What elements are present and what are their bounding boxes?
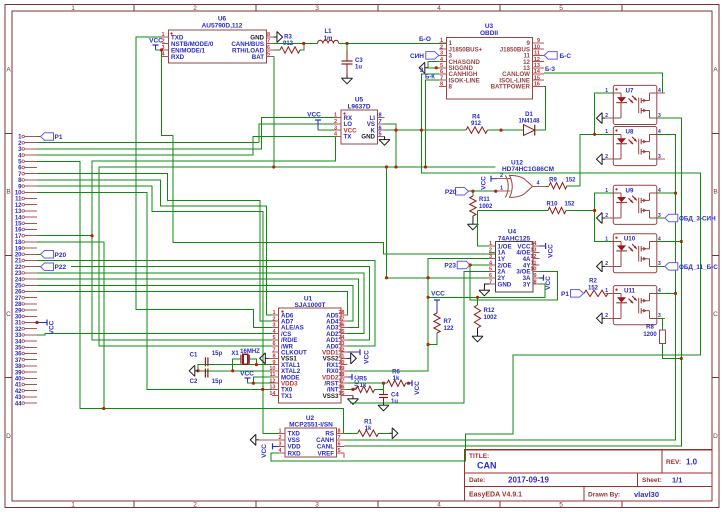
IC U1 SJA1000T: [269, 296, 347, 403]
svg-text:D: D: [713, 433, 718, 440]
svg-text:U5: U5: [355, 97, 364, 104]
svg-text:12: 12: [15, 203, 22, 209]
svg-text:VCC: VCC: [431, 291, 445, 298]
wire CANLOW to U7 pin4 label B-Z: [544, 67, 662, 93]
svg-text:122: 122: [444, 326, 455, 332]
ground at U8 pin2: [602, 158, 605, 160]
svg-text:U10: U10: [624, 236, 636, 243]
svg-text:VCC: VCC: [307, 112, 321, 119]
wire conn pin3 to U5 RX: [37, 118, 335, 149]
svg-text:44: 44: [15, 401, 22, 407]
wire U6 TXD staircase to ALE/AS: [136, 37, 279, 327]
VCC symbol at U1 VDD1: [348, 349, 371, 364]
svg-text:38: 38: [15, 364, 22, 370]
svg-text:2: 2: [440, 44, 443, 50]
svg-text:Б-К: Б-К: [425, 75, 435, 81]
svg-text:19: 19: [15, 246, 22, 252]
wire EN-net jog: [162, 50, 174, 136]
svg-text:1: 1: [500, 186, 503, 192]
ground at U2 VSS: [259, 439, 278, 441]
svg-text:2: 2: [605, 313, 608, 319]
svg-text:14: 14: [534, 69, 541, 75]
ground below C4: [383, 402, 385, 405]
svg-text:42: 42: [15, 389, 22, 395]
wire conn pin4 to U5 TX: [37, 136, 335, 155]
svg-text:40: 40: [15, 377, 22, 383]
junction dot P23: [469, 263, 472, 266]
wire U7 pin1 to U8 pin1: [595, 93, 614, 134]
junction dot U10 pin4 on CANL riser: [680, 240, 683, 243]
svg-text:RXD: RXD: [288, 450, 302, 457]
net flag P22 at conn pin22: [37, 263, 66, 271]
svg-text:7: 7: [440, 75, 443, 81]
ground at U3 SIGGND: [425, 67, 428, 69]
svg-text:L1: L1: [324, 29, 332, 35]
svg-text:8: 8: [533, 279, 536, 285]
wire pin17 net riser x92 and feed line: [92, 136, 335, 339]
svg-text:13: 13: [269, 385, 275, 391]
junction dot 3Y net: [427, 296, 430, 299]
svg-text:R9: R9: [549, 178, 557, 184]
svg-text:25: 25: [15, 284, 22, 290]
svg-text:P20: P20: [55, 252, 67, 259]
resistor R11 1002: [470, 191, 493, 221]
svg-text:C1: C1: [190, 353, 198, 359]
wire 2A feed from bottom rail: [350, 271, 489, 402]
ground right of R1: [389, 432, 392, 434]
svg-text:8: 8: [267, 32, 270, 38]
svg-text:16: 16: [534, 82, 540, 88]
svg-text:24: 24: [338, 335, 345, 341]
svg-text:35: 35: [15, 346, 22, 352]
ground at U1 VSS1: [265, 357, 268, 359]
wire conn pin24 arc to AD3: [37, 279, 359, 327]
svg-text:3Y: 3Y: [523, 281, 531, 288]
svg-text:VCC: VCC: [240, 371, 254, 378]
junction dot U6 EN: [160, 48, 163, 51]
svg-text:1m: 1m: [324, 36, 333, 42]
junction dot pin17 at x92: [90, 234, 93, 237]
svg-text:1k: 1k: [360, 383, 367, 389]
wire XTAL1 row: [198, 364, 272, 366]
svg-text:VCC: VCC: [261, 444, 268, 458]
junction dot C3 node: [345, 42, 348, 45]
svg-text:31: 31: [15, 321, 22, 327]
junction dot R6 right VCC: [407, 382, 410, 385]
svg-text:8: 8: [449, 84, 453, 91]
svg-text:2: 2: [500, 173, 503, 179]
resistor R10 152: [478, 202, 595, 214]
svg-text:21: 21: [15, 259, 22, 265]
svg-text:43: 43: [15, 395, 22, 401]
wire U5 K to R4: [385, 129, 467, 131]
svg-text:1.0: 1.0: [686, 458, 698, 467]
svg-text:22: 22: [15, 265, 22, 271]
hook at U2 VREF: [343, 453, 345, 458]
VCC at U4 pin14: [539, 243, 554, 258]
junction dot XOR pin1 net: [494, 190, 497, 193]
svg-text:10: 10: [534, 44, 540, 50]
svg-text:R7: R7: [444, 319, 452, 325]
svg-text:1k: 1k: [365, 426, 372, 432]
svg-text:2: 2: [489, 248, 492, 254]
wire conn pin26 arc to AD5: [37, 292, 348, 316]
svg-text:J1850BUS+: J1850BUS+: [449, 46, 483, 53]
resistor R9 152: [546, 134, 595, 189]
wire U6 BAT down to y167: [273, 57, 275, 168]
svg-text:C3: C3: [355, 58, 363, 64]
svg-text:912: 912: [471, 121, 482, 127]
svg-text:R2: R2: [589, 279, 597, 285]
junction dot pin18 at bottom rail: [102, 407, 105, 410]
wire conn pin5 down x80 to bottom rail: [37, 161, 344, 433]
svg-text:6: 6: [267, 45, 270, 51]
svg-text:TX1: TX1: [281, 393, 293, 400]
svg-text:1: 1: [489, 241, 492, 247]
optocoupler U8: [605, 127, 665, 166]
junction dot C1/C2 ground node: [196, 369, 199, 372]
svg-text:vlavl30: vlavl30: [634, 490, 659, 499]
svg-text:1: 1: [440, 38, 443, 44]
wire U5 VS down to rail: [385, 124, 397, 167]
svg-text:R6: R6: [392, 370, 400, 376]
svg-text:2: 2: [605, 213, 608, 219]
svg-text:R10: R10: [546, 202, 558, 208]
ground at U9 pin2: [602, 217, 605, 219]
svg-text:152: 152: [565, 202, 576, 208]
wire RX0 net to U4 1Y/2Y: [348, 259, 496, 371]
svg-text:33: 33: [15, 333, 22, 339]
wire EN-net to U4 1A: [173, 136, 495, 254]
svg-text:Б-С: Б-С: [560, 53, 572, 60]
svg-text:EasyEDA V4.9.1: EasyEDA V4.9.1: [469, 492, 522, 499]
svg-text:15: 15: [534, 75, 540, 81]
svg-text:P1: P1: [55, 134, 63, 141]
svg-text:18: 18: [338, 372, 344, 378]
wire conn pin23 arc to AD2: [37, 273, 364, 334]
svg-text:U7: U7: [626, 87, 634, 94]
svg-text:R1: R1: [364, 420, 372, 426]
wire 2Y line: [387, 277, 496, 279]
svg-text:1u: 1u: [355, 65, 362, 71]
svg-text:26: 26: [15, 290, 22, 296]
net flag OBD_11_B-C at U10 pin3: [657, 263, 718, 271]
svg-text:24: 24: [15, 277, 22, 283]
svg-text:R5: R5: [359, 377, 367, 383]
svg-text:9: 9: [272, 360, 275, 366]
svg-text:5: 5: [559, 502, 563, 509]
junction dot R5/R6: [382, 382, 385, 385]
svg-text:BAT: BAT: [252, 54, 264, 61]
svg-text:VCC: VCC: [414, 381, 421, 395]
inductor L1 1m: [318, 29, 339, 44]
wire CANH vertical right x675.5: [344, 134, 675, 440]
svg-text:16: 16: [15, 228, 22, 234]
svg-text:1: 1: [71, 5, 75, 12]
junction dot crystal right on XTAL1: [255, 363, 258, 366]
svg-text:L9637D: L9637D: [347, 104, 370, 111]
svg-text:U3: U3: [485, 23, 494, 30]
net flag P1 at conn pin1: [37, 133, 63, 141]
svg-text:VCC: VCC: [364, 350, 371, 364]
svg-text:7: 7: [267, 39, 270, 45]
svg-text:R12: R12: [484, 308, 496, 314]
optocoupler U7: [605, 85, 665, 124]
junction dot R8 on CANL riser: [680, 357, 683, 360]
svg-text:ОБД_11_Б-С: ОБД_11_Б-С: [679, 264, 718, 271]
VCC symbol at U1 VDD2: [348, 374, 362, 389]
optocoupler U11: [605, 286, 665, 325]
svg-text:9: 9: [533, 273, 536, 279]
svg-text:CAN: CAN: [477, 461, 497, 471]
svg-text:28: 28: [338, 310, 344, 316]
svg-text:RXD: RXD: [171, 54, 185, 61]
capacitor C3 1u: [342, 44, 364, 76]
svg-text:4: 4: [437, 502, 441, 509]
svg-text:6: 6: [378, 125, 381, 131]
svg-text:1/1: 1/1: [672, 476, 682, 485]
svg-text:2: 2: [278, 435, 281, 441]
svg-text:37: 37: [15, 358, 22, 364]
svg-text:U6: U6: [218, 16, 227, 23]
junction dot ISOK on y167 net: [424, 165, 427, 168]
svg-text:8: 8: [272, 354, 275, 360]
ground at U1 VSS3: [348, 395, 354, 397]
junction dot /INT R5: [351, 388, 354, 391]
junction dot R7 bottom: [427, 343, 430, 346]
wire 3Y to R12: [428, 284, 545, 297]
wire long net y167 (BAT rail) to /WR: [99, 167, 496, 346]
resistor R5 1k: [348, 377, 384, 393]
wire XTAL2 row: [198, 370, 272, 372]
capacitor C2 15p: [190, 369, 223, 386]
svg-text:VCC: VCC: [481, 176, 488, 190]
svg-text:3: 3: [658, 154, 661, 160]
svg-text:Date:: Date:: [469, 477, 485, 484]
svg-text:VCC: VCC: [548, 244, 555, 258]
svg-text:10: 10: [530, 267, 536, 273]
wire conn pin10 to TX0: [37, 192, 272, 389]
wire conn pin25 arc to AD4: [37, 285, 353, 321]
svg-text:VSS3: VSS3: [323, 393, 339, 400]
svg-text:4: 4: [658, 88, 661, 94]
svg-text:MCP2551-I/SN: MCP2551-I/SN: [289, 422, 333, 429]
svg-text:1N4148: 1N4148: [518, 119, 540, 125]
svg-text:6: 6: [272, 341, 275, 347]
svg-text:Б-З: Б-З: [545, 67, 555, 73]
junction dot x386.5 tee on y167: [385, 165, 388, 168]
ground at U11 pin2: [602, 317, 605, 319]
svg-text:34: 34: [15, 339, 22, 345]
svg-text:A: A: [713, 67, 718, 74]
VCC at U2 VDD: [261, 443, 278, 457]
wire conn pin2b riser to U5 LO: [259, 124, 335, 143]
wire conn pin21 arc to AD0: [37, 261, 375, 347]
wire P23 to 3/OE: [470, 265, 557, 300]
ground at U6 GND pin8: [274, 36, 277, 38]
wire conn pin18 to RS net: [37, 242, 104, 409]
svg-text:Sheet:: Sheet:: [642, 477, 662, 484]
svg-text:TX: TX: [344, 134, 353, 141]
svg-text:11: 11: [534, 51, 540, 57]
svg-text:32: 32: [15, 327, 22, 333]
resistor R12 1002: [474, 297, 497, 333]
svg-text:1: 1: [334, 113, 337, 119]
junction dot 2Y at x386.5: [385, 276, 388, 279]
svg-text:39: 39: [15, 370, 22, 376]
svg-text:C: C: [713, 311, 718, 318]
svg-text:B: B: [6, 189, 10, 196]
svg-text:8: 8: [337, 429, 340, 435]
svg-text:U11: U11: [624, 288, 636, 295]
svg-text:GND: GND: [361, 134, 375, 141]
svg-text:23: 23: [15, 271, 22, 277]
junction dot MODE/VDD3: [252, 382, 255, 385]
resistor R2 152: [584, 279, 613, 297]
ground below R11: [472, 221, 474, 224]
svg-text:1200: 1200: [643, 332, 657, 338]
svg-text:AU5790D,112: AU5790D,112: [202, 23, 243, 30]
svg-text:B: B: [713, 189, 717, 196]
svg-text:20: 20: [338, 360, 344, 366]
svg-text:3: 3: [440, 51, 443, 57]
svg-text:5: 5: [559, 5, 563, 12]
svg-text:REV:: REV:: [666, 459, 681, 466]
junction dot R12 top: [476, 296, 479, 299]
svg-text:З: З: [420, 68, 424, 74]
svg-text:6: 6: [337, 442, 340, 448]
ground below C3: [346, 75, 348, 78]
IC U2 MCP2551-I/SN: [278, 415, 344, 457]
svg-text:P22: P22: [55, 264, 67, 271]
svg-text:26: 26: [338, 323, 344, 329]
svg-text:Б-О: Б-О: [419, 36, 431, 43]
svg-text:2017-09-19: 2017-09-19: [508, 476, 549, 485]
ground at U7 pin2: [602, 117, 605, 119]
net flag P1 at R2: [561, 290, 584, 298]
svg-text:3: 3: [315, 5, 319, 12]
svg-text:8: 8: [378, 113, 381, 119]
svg-text:27: 27: [15, 296, 22, 302]
wire conn pin2 to U5 LO riser: [37, 142, 259, 144]
svg-text:SJA1000T: SJA1000T: [294, 302, 325, 309]
resistor R4 912: [466, 115, 524, 134]
svg-text:3: 3: [315, 502, 319, 509]
wire CANH/BUS: [274, 43, 318, 45]
VCC symbol at U12 pin2: [481, 176, 498, 190]
net flag P20 at conn pin20: [37, 251, 66, 259]
connector P1 44-pin header: [15, 135, 37, 408]
svg-text:17: 17: [15, 234, 22, 240]
svg-text:152: 152: [566, 178, 577, 184]
svg-text:R8: R8: [646, 325, 654, 331]
junction dot crystal left on XTAL2: [231, 369, 234, 372]
svg-text:ISOK-LINE: ISOK-LINE: [449, 77, 480, 84]
svg-text:3: 3: [272, 323, 275, 329]
svg-text:18: 18: [15, 240, 22, 246]
svg-text:VCC: VCC: [545, 276, 552, 290]
resistor R3 912: [274, 35, 304, 54]
svg-text:R4: R4: [472, 115, 480, 121]
svg-text:16: 16: [338, 385, 344, 391]
svg-text:7: 7: [489, 279, 492, 285]
svg-text:6: 6: [489, 273, 492, 279]
junction dot SIGGND: [435, 66, 438, 69]
svg-text:U9: U9: [626, 187, 634, 194]
svg-text:14: 14: [269, 391, 276, 397]
IC U4 74AHC125: [489, 229, 540, 293]
svg-text:4: 4: [437, 5, 441, 12]
wire conn pin9 staircase to U2 TXD: [37, 186, 285, 433]
svg-text:3: 3: [489, 254, 492, 260]
IC U5 L9637D: [334, 97, 385, 144]
svg-text:5: 5: [489, 267, 492, 273]
VCC symbol at U5: [307, 112, 334, 131]
svg-text:74AHC125: 74AHC125: [498, 235, 531, 242]
svg-text:A: A: [6, 67, 11, 74]
svg-text:21: 21: [338, 354, 344, 360]
svg-text:D1: D1: [525, 112, 533, 118]
svg-text:23: 23: [338, 341, 344, 347]
svg-text:5: 5: [440, 63, 443, 69]
junction dot R3: [302, 42, 305, 45]
wire CANL vertical right x681.25: [344, 118, 681, 446]
svg-text:13: 13: [15, 209, 22, 215]
svg-text:GND: GND: [498, 281, 512, 288]
svg-text:OBDII: OBDII: [480, 30, 498, 37]
svg-text:2: 2: [605, 113, 608, 119]
svg-text:7: 7: [378, 119, 381, 125]
net flag P20 at U12 pin1: [445, 187, 497, 195]
svg-text:2: 2: [272, 316, 275, 322]
svg-text:Drawn By:: Drawn By:: [588, 492, 620, 499]
svg-text:15p: 15p: [212, 379, 223, 385]
svg-text:2: 2: [193, 502, 197, 509]
optocoupler U10: [605, 234, 665, 273]
svg-text:U8: U8: [626, 129, 634, 136]
svg-text:D: D: [6, 433, 11, 440]
svg-text:15: 15: [15, 222, 22, 228]
wire L1 to U3 pin1: [339, 43, 447, 45]
svg-text:P23: P23: [444, 263, 456, 270]
svg-text:1002: 1002: [479, 204, 493, 210]
resistor R8 1200 (box style): [643, 318, 681, 358]
junction dot U9 pin4: [674, 192, 677, 195]
wire R10 to U4 1/OE: [478, 211, 496, 247]
svg-text:10: 10: [15, 191, 22, 197]
VCC at R6: [409, 380, 422, 395]
svg-text:22: 22: [338, 347, 344, 353]
wire ISOK-LINE net label B-K: [425, 75, 439, 168]
svg-text:36: 36: [15, 352, 22, 358]
gate U12 HD74HC1G86CM XOR: [497, 160, 554, 198]
svg-text:41: 41: [15, 383, 22, 389]
svg-text:12: 12: [534, 57, 540, 63]
svg-text:15p: 15p: [212, 351, 223, 357]
svg-text:7: 7: [337, 435, 340, 441]
junction dot BAT riser on y167: [272, 165, 275, 168]
svg-text:C: C: [6, 311, 11, 318]
svg-text:1002: 1002: [484, 315, 498, 321]
svg-text:VCC: VCC: [49, 320, 56, 334]
svg-text:29: 29: [15, 308, 22, 314]
svg-text:2: 2: [605, 261, 608, 267]
net flag P23 at U4 pin4: [444, 261, 488, 269]
svg-text:19: 19: [338, 366, 344, 372]
ground at U5 GND: [384, 136, 386, 139]
svg-text:5: 5: [267, 52, 270, 58]
net flag B-C at U3 pin11: [544, 52, 571, 60]
